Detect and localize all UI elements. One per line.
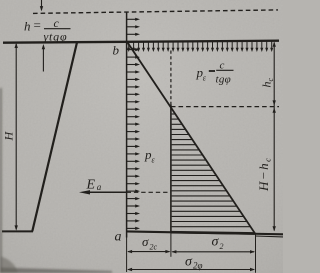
svg-text:H−hc: H−hc	[256, 157, 273, 192]
dimension line H	[15, 44, 17, 229]
dashed line at depth h_c	[171, 106, 279, 108]
svg-text:σ: σ	[142, 234, 149, 249]
svg-text:a: a	[115, 230, 122, 245]
svg-text:H: H	[2, 131, 16, 142]
extension line at triangle tip	[255, 234, 257, 273]
triangle left edge	[170, 105, 172, 234]
svg-text:b: b	[113, 43, 120, 58]
svg-text:E: E	[86, 178, 96, 193]
svg-text:=: =	[34, 18, 41, 33]
dimension h lower arrow	[42, 47, 44, 72]
svg-text:2c: 2c	[150, 243, 158, 252]
surcharge arrows on ground surface	[128, 42, 130, 49]
dimension sigma_2	[172, 251, 254, 253]
force arrow E_a	[90, 191, 127, 193]
vertical plane b-a	[126, 12, 128, 238]
baseline through a	[127, 231, 283, 234]
dashed line: original ground level	[33, 10, 278, 14]
svg-text:c: c	[54, 16, 60, 30]
svg-text:2: 2	[220, 242, 224, 251]
svg-text:a: a	[97, 182, 102, 192]
triangle hatching	[170, 108, 172, 110]
svg-text:σ: σ	[185, 255, 193, 270]
retaining wall base	[2, 230, 33, 232]
svg-text:tgφ: tgφ	[216, 74, 232, 86]
extension line at sigma_2c	[170, 234, 172, 257]
dimension h upper arrow	[41, 0, 43, 10]
dimension sigma_2c	[128, 251, 170, 253]
ground surface line	[3, 41, 279, 43]
dashed zero-pressure axis (upper)	[170, 51, 172, 105]
dimension line h_c and H-h_c	[273, 43, 275, 231]
dashed line at E_a level	[127, 191, 171, 193]
svg-text:h: h	[24, 19, 31, 34]
dimension sigma_2phi	[128, 269, 254, 271]
pressure arrows p_t on plane ab	[127, 18, 136, 20]
svg-text:c: c	[220, 59, 225, 71]
pressure diagram hypotenuse	[127, 42, 254, 233]
retaining wall back face	[32, 42, 77, 231]
svg-text:2φ: 2φ	[193, 261, 203, 271]
svg-text:σ: σ	[212, 235, 220, 250]
photo edge shading	[0, 88, 112, 273]
extension line at a	[126, 234, 128, 272]
